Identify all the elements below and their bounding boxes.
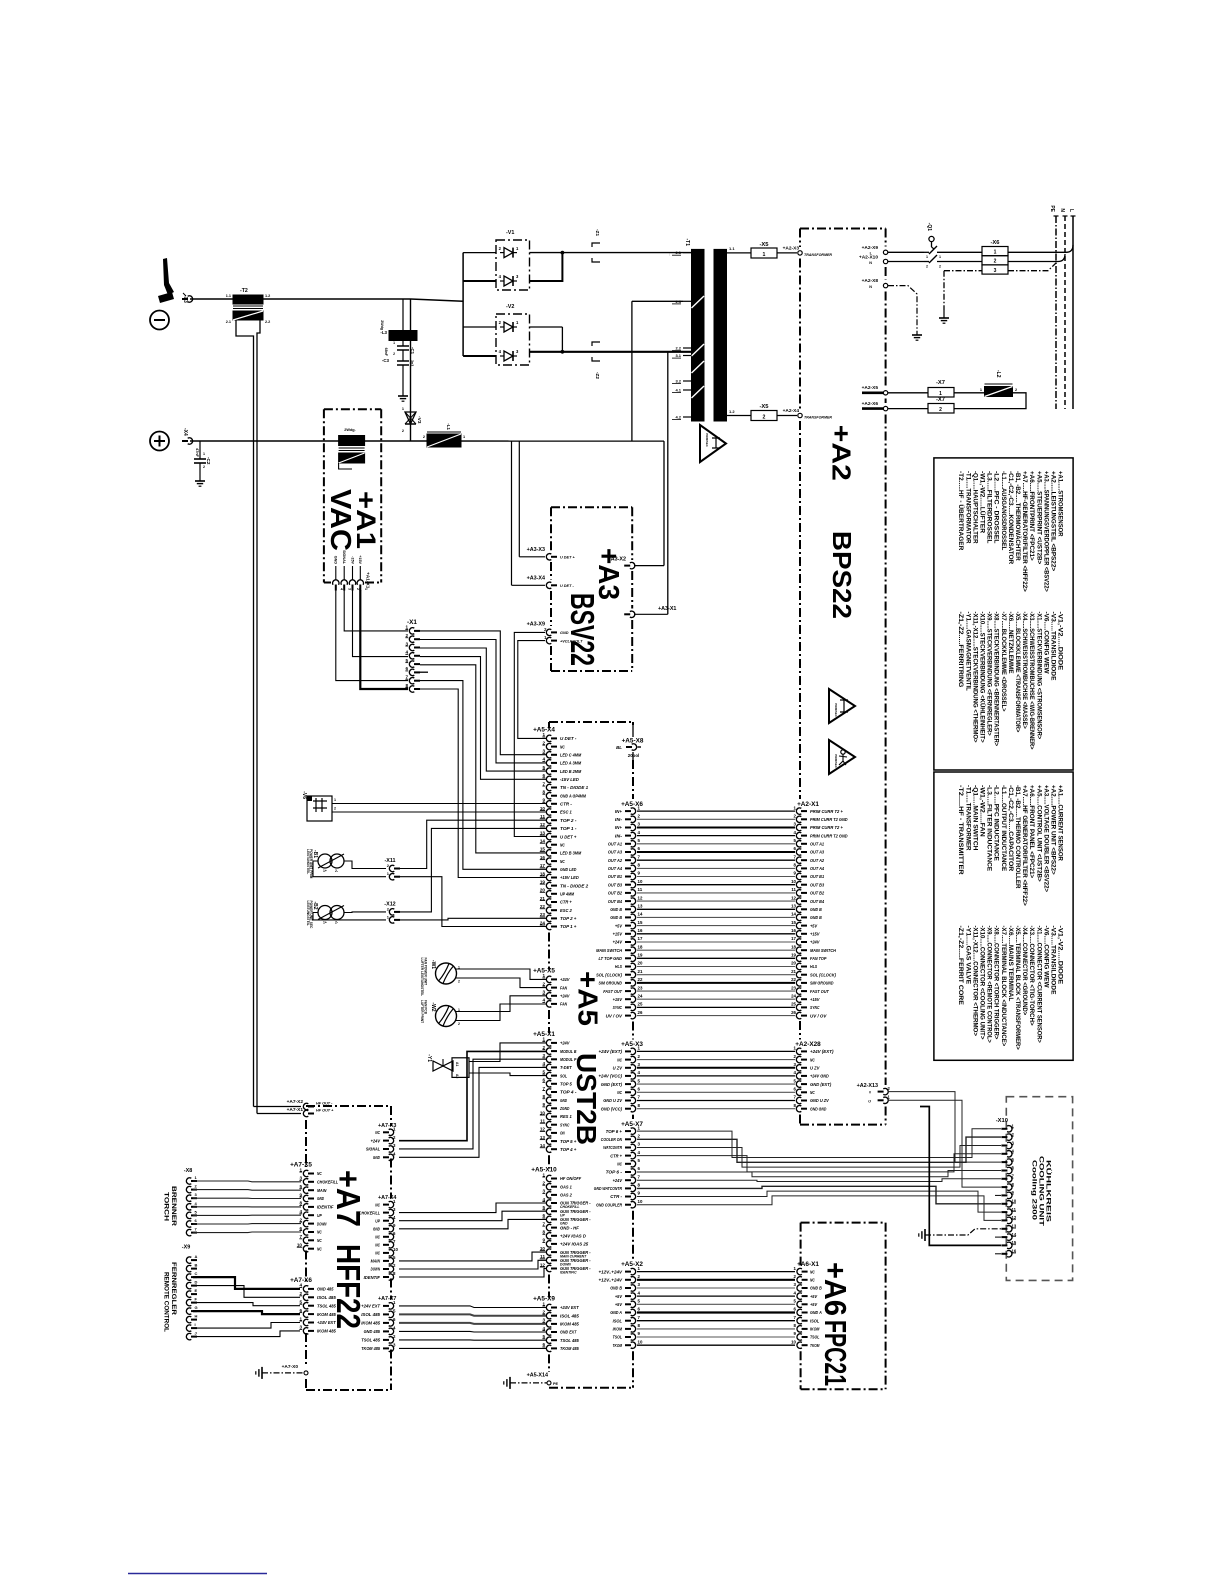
svg-text:+A6.....FRONTPRINT <FPC21>: +A6.....FRONTPRINT <FPC21> [1028,471,1035,561]
svg-text:-L3.....FILTERDROSSEL: -L3.....FILTERDROSSEL [986,471,993,544]
svg-text:IN-: IN- [615,817,623,822]
svg-text:FAN POWER UNIT: FAN POWER UNIT [424,958,428,986]
svg-text:-X1.....CONNECTOR <CURRENT SEN: -X1.....CONNECTOR <CURRENT SENSOR> [1035,926,1042,1044]
svg-text:G: G [195,1305,198,1310]
svg-text:1.2: 1.2 [265,294,270,298]
svg-text:NC: NC [810,1090,815,1095]
svg-text:OUT B1: OUT B1 [810,874,824,879]
svg-text:UP: UP [560,1213,565,1217]
svg-text:10: 10 [638,1199,643,1204]
svg-text:GAS 1: GAS 1 [560,1184,572,1189]
svg-text:FAST OUT: FAST OUT [603,989,623,994]
svg-text:OUT A4: OUT A4 [810,866,824,871]
svg-text:+5V: +5V [810,923,818,928]
svg-text:2-: 2- [335,869,338,873]
svg-text:Cooling 2300: Cooling 2300 [1031,1160,1038,1221]
svg-text:HF ON/OFF: HF ON/OFF [560,1176,581,1181]
svg-text:+24V GND: +24V GND [810,1074,829,1079]
svg-text:+15V: +15V [358,555,362,564]
svg-text:17: 17 [791,936,796,941]
svg-text:-X10.....STECKVERBINDUNG <KÜHL: -X10.....STECKVERBINDUNG <KÜHLEINHEIT> [979,612,988,743]
svg-text:-V3: -V3 [416,416,422,424]
svg-text:-C2: -C2 [206,457,211,465]
svg-text:-X4: -X4 [182,428,188,436]
svg-text:BL: BL [616,745,622,750]
svg-text:1: 1 [763,252,766,258]
svg-text:-X10: -X10 [996,1118,1008,1124]
svg-text:U: U [868,1099,871,1103]
svg-text:T-DET: T-DET [560,1065,573,1070]
svg-text:NC: NC [317,1171,322,1176]
svg-text:N: N [1059,208,1065,212]
svg-text:68nF: 68nF [384,348,388,357]
svg-text:+24V: +24V [560,1041,570,1046]
svg-text:GND: GND [334,556,338,565]
svg-text:19: 19 [791,953,796,958]
svg-text:IN+: IN+ [615,825,622,830]
svg-text:LED C 4MM: LED C 4MM [560,753,581,758]
svg-text:N: N [869,261,872,265]
svg-text:-X6.....NETZKLEMME: -X6.....NETZKLEMME [1007,612,1014,675]
svg-text:+5V: +5V [615,1302,623,1307]
svg-text:MAIN: MAIN [371,1259,381,1264]
svg-text:BPS22: BPS22 [827,531,857,619]
svg-text:-X5.....TERMINAL BLOCK <TRANSF: -X5.....TERMINAL BLOCK <TRANSFORMER> [1014,926,1021,1050]
svg-text:PRIM/SEC: PRIM/SEC [834,754,838,768]
svg-text:B: B [195,1263,198,1268]
svg-text:LED B 3MM: LED B 3MM [560,851,581,856]
svg-text:-L2.....PFC INDUCTANCE: -L2.....PFC INDUCTANCE [993,785,1000,862]
svg-text:DOWN: DOWN [371,1267,381,1272]
svg-text:GND (EXT): GND (EXT) [810,1082,832,1087]
svg-text:TKOM 485: TKOM 485 [361,1346,380,1351]
svg-text:11: 11 [540,1254,545,1259]
svg-text:PRIM CURR T2 +: PRIM CURR T2 + [810,825,843,830]
svg-text:GND 485: GND 485 [317,1287,334,1292]
svg-text:-Z1,-Z2.....FERRIT CORE: -Z1,-Z2.....FERRIT CORE [957,926,964,1006]
svg-text:+24V (EXT): +24V (EXT) [810,1049,834,1054]
svg-text:CTR -: CTR - [610,1194,622,1199]
svg-text:2.2: 2.2 [265,320,270,324]
svg-text:I: I [195,1322,196,1327]
svg-text:+15V LED: +15V LED [560,875,579,880]
svg-text:TSOL 485: TSOL 485 [560,1338,579,1343]
svg-text:-C1,-C2,-C3.....KONDENSATOR: -C1,-C2,-C3.....KONDENSATOR [1007,471,1014,565]
svg-text:2Wdg: 2Wdg [380,320,384,330]
svg-text:TSOL 485: TSOL 485 [361,1338,380,1343]
svg-text:+A3-X4: +A3-X4 [527,576,545,582]
svg-text:+A6: +A6 [818,1262,853,1316]
svg-text:C: C [195,1271,198,1276]
svg-text:-X11,-X12.....CONNECTOR <THERM: -X11,-X12.....CONNECTOR <THERMO> [971,926,978,1037]
svg-text:U DET +: U DET + [560,834,577,839]
svg-text:ISOL 485: ISOL 485 [317,1295,336,1300]
svg-text:+A5-X14: +A5-X14 [527,1373,548,1379]
svg-text:+A3-X1: +A3-X1 [658,606,676,612]
svg-text:FAN: FAN [560,1002,568,1007]
svg-text:+5V: +5V [615,923,623,928]
svg-text:-X9.....STECKVERBINDUNG <FERNR: -X9.....STECKVERBINDUNG <FERNREGLER> [986,612,993,736]
svg-text:-X6: -X6 [990,240,1000,246]
svg-text:UST2B: UST2B [571,1053,602,1145]
svg-text:LED A 3MM: LED A 3MM [560,761,581,766]
svg-text:+A3.....VOLTAGE DOUBLER <BSV22: +A3.....VOLTAGE DOUBLER <BSV22> [1042,785,1049,892]
svg-text:TOP 2 +: TOP 2 + [560,916,577,921]
svg-text:-L2: -L2 [995,370,1001,378]
svg-text:+VCLKVOLT: +VCLKVOLT [560,639,583,643]
svg-text:+A5-X3: +A5-X3 [621,1041,643,1048]
svg-text:-X10.....CONNECTOR <COOLING UN: -X10.....CONNECTOR <COOLING UNIT> [979,926,986,1040]
svg-text:2: 2 [423,435,425,439]
svg-text:MAIN SWITCH: MAIN SWITCH [810,948,836,953]
svg-text:HF OUT +: HF OUT + [316,1109,334,1113]
svg-text:+A2.....POWER UNIT <BPS22>: +A2.....POWER UNIT <BPS22> [1050,785,1057,875]
svg-text:-B1, -B2.....THERMO CONTROLLER: -B1, -B2.....THERMO CONTROLLER [1014,785,1021,889]
svg-text:1.1: 1.1 [226,294,231,298]
svg-text:2: 2 [939,265,941,269]
svg-text:+24V: +24V [613,1178,623,1183]
svg-text:REMOTE CONTROL: REMOTE CONTROL [163,1272,170,1332]
svg-text:20: 20 [791,961,796,966]
svg-text:CTR +: CTR + [610,1153,622,1158]
svg-text:-V1,-V2.....DIODE: -V1,-V2.....DIODE [1057,612,1064,672]
svg-text:PRIM CURR T2 GND: PRIM CURR T2 GND [810,817,848,822]
svg-text:SYNC: SYNC [810,1005,820,1010]
svg-text:BSV22: BSV22 [564,593,601,666]
svg-text:GND EXT: GND EXT [560,1330,577,1335]
svg-text:-V6.....CONFIG WEW: -V6.....CONFIG WEW [1042,612,1049,675]
svg-text:2-: 2- [335,921,338,925]
svg-text:-X3.....CONNECTOR <TIG-TORCH>: -X3.....CONNECTOR <TIG-TORCH> [1028,926,1035,1026]
svg-text:E: E [195,1288,198,1293]
svg-text:16: 16 [791,928,796,933]
svg-text:COOLER ON: COOLER ON [601,1137,623,1142]
svg-text:+A3-X3: +A3-X3 [527,547,545,553]
svg-text:4: 4 [339,588,343,590]
svg-text:-X5.....BLOCKKLEMME <TRANSFORM: -X5.....BLOCKKLEMME <TRANSFORMATOR> [1014,612,1021,733]
svg-text:FERNREGLER: FERNREGLER [170,1262,177,1316]
svg-text:+5V: +5V [810,1302,818,1307]
svg-text:4.1: 4.1 [675,388,681,393]
svg-text:PRIM CURR T2 +: PRIM CURR T2 + [810,809,843,814]
svg-text:21: 21 [638,969,643,974]
svg-text:-Q1.....HAUPTSCHALTER: -Q1.....HAUPTSCHALTER [971,471,978,544]
svg-text:+24V (VCC): +24V (VCC) [599,1074,623,1079]
svg-text:1: 1 [203,452,205,456]
svg-text:FAN: FAN [560,985,568,990]
svg-text:HF OUT -: HF OUT - [316,1102,333,1106]
svg-text:FAN PCB: FAN PCB [424,1000,428,1015]
svg-text:-V1: -V1 [506,230,514,236]
svg-text:GND: GND [560,1098,568,1103]
svg-text:+A2-X9: +A2-X9 [862,245,879,251]
svg-text:TN - DIODE 2: TN - DIODE 2 [560,883,589,888]
svg-text:18: 18 [791,944,796,949]
svg-text:2.1: 2.1 [226,320,231,324]
svg-text:N: N [869,285,872,289]
svg-text:NC: NC [375,1130,380,1135]
svg-text:2: 2 [334,807,336,811]
svg-text:1: 1 [994,250,997,256]
svg-text:MODUL P: MODUL P [560,1057,577,1062]
svg-text:3: 3 [348,588,352,590]
svg-text:NC: NC [810,1269,815,1274]
svg-text:SIGNAL: SIGNAL [366,1147,380,1152]
svg-text:+15V: +15V [613,932,623,937]
svg-text:FAST OUT: FAST OUT [810,989,830,994]
svg-text:IDENTIF: IDENTIF [317,1205,334,1210]
svg-text:+24V IGAS D: +24V IGAS D [560,1234,587,1239]
svg-text:-X8.....CONNECTOR <TORCH TRIGG: -X8.....CONNECTOR <TORCH TRIGGER> [993,926,1000,1040]
svg-text:D: D [195,1280,198,1285]
svg-text:12: 12 [791,895,796,900]
svg-text:+15V: +15V [810,932,820,937]
svg-text:15: 15 [638,920,643,925]
svg-text:2Wdg.: 2Wdg. [344,428,355,432]
svg-text:VAC: VAC [324,489,356,551]
svg-text:IN+: IN+ [615,809,622,814]
svg-text:GND B: GND B [610,915,622,920]
svg-text:GND U ZV: GND U ZV [810,1098,830,1103]
svg-text:POWER UNIT PRIM: POWER UNIT PRIM [309,849,313,879]
svg-text:+24V EXT: +24V EXT [560,1305,580,1310]
svg-text:47nF: 47nF [195,448,199,458]
svg-text:-T2.....HF - ÜBERTRAGER: -T2.....HF - ÜBERTRAGER [957,471,966,551]
svg-text:U DET -: U DET - [560,584,574,588]
svg-text:-V6: -V6 [301,791,307,799]
svg-text:-X11,-X12.....STECKVERBINDUNG: -X11,-X12.....STECKVERBINDUNG <THERMO> [971,612,978,743]
svg-text:UV / OV: UV / OV [606,1013,623,1018]
svg-text:-L3: -L3 [380,330,387,335]
svg-text:MAIN SWITCH: MAIN SWITCH [596,948,622,953]
svg-text:OUT B3: OUT B3 [608,882,622,887]
svg-text:NC: NC [617,1162,622,1167]
svg-text:TOP 5 +: TOP 5 + [560,1139,577,1144]
svg-text:1: 1 [402,407,404,411]
svg-text:+24V: +24V [560,977,570,982]
svg-text:GND B: GND B [610,907,622,912]
svg-text:8: 8 [299,1201,302,1206]
svg-text:GND 485: GND 485 [364,1329,381,1334]
svg-text:TRANSFORMER: TRANSFORMER [804,253,832,257]
svg-text:6: 6 [542,1078,545,1083]
svg-text:PE: PE [553,1382,559,1386]
svg-text:BRENNER: BRENNER [170,1186,177,1227]
svg-text:-L3.....FILTER INDUCTANCE: -L3.....FILTER INDUCTANCE [986,785,993,872]
svg-text:UP: UP [317,1213,322,1218]
svg-text:1: 1 [939,255,941,259]
svg-text:-15V LED: -15V LED [560,777,579,782]
svg-text:NC: NC [317,1246,322,1251]
svg-text:+5V: +5V [615,1294,623,1299]
svg-text:+24V IGAS 25: +24V IGAS 25 [560,1242,589,1247]
svg-text:10: 10 [791,879,796,884]
svg-text:+A3-X9: +A3-X9 [527,622,545,628]
svg-text:6: 6 [542,1342,545,1347]
svg-text:GND (EXT): GND (EXT) [601,1082,623,1087]
svg-text:NC: NC [810,1278,815,1283]
svg-text:1.1: 1.1 [729,246,735,251]
svg-text:TOP 1 -: TOP 1 - [560,826,577,831]
svg-text:+A3-X2: +A3-X2 [608,557,626,563]
svg-text:SIM GROUND: SIM GROUND [599,981,623,986]
svg-text:15: 15 [791,920,796,925]
svg-text:U ZV: U ZV [810,1066,820,1071]
svg-text:+24V: +24V [371,1138,381,1143]
svg-text:OUT B4: OUT B4 [810,899,824,904]
svg-text:MAIN: MAIN [317,1188,327,1193]
svg-text:GND A GP4MM: GND A GP4MM [560,793,586,798]
svg-text:IDENTIF: IDENTIF [364,1275,381,1280]
svg-text:11: 11 [791,887,796,892]
svg-text:IKOM: IKOM [613,1327,623,1332]
svg-text:GND: GND [560,1222,568,1226]
svg-text:U DET +: U DET + [560,556,575,560]
svg-text:-C1,-C2,-C3.....CAPACITOR: -C1,-C2,-C3.....CAPACITOR [1007,785,1014,872]
svg-text:18: 18 [638,944,643,949]
svg-text:TOP 1 +: TOP 1 + [560,924,577,929]
svg-text:-W2: -W2 [430,1002,436,1011]
svg-text:NC: NC [375,1202,380,1207]
svg-text:-W1: -W1 [430,960,436,969]
svg-text:+A7-X2: +A7-X2 [287,1099,304,1105]
svg-text:+A2-X5: +A2-X5 [862,385,879,391]
svg-text:UP: UP [375,1218,380,1223]
svg-text:ESC 1: ESC 1 [560,810,572,815]
svg-text:TOP 6 +: TOP 6 + [606,1129,623,1134]
svg-text:3: 3 [542,1189,545,1194]
svg-text:+A5: +A5 [573,971,604,1026]
svg-text:GAS 2: GAS 2 [560,1193,572,1198]
svg-text:NC: NC [617,1090,622,1095]
svg-text:-X9: -X9 [182,1245,190,1251]
svg-text:GND LED: GND LED [560,867,577,872]
svg-text:SOL (CLOCK): SOL (CLOCK) [810,972,836,977]
svg-text:+A3.....SPANNUNGSVERDOPPLER <B: +A3.....SPANNUNGSVERDOPPLER <BSV22> [1042,471,1049,592]
svg-text:TKOM: TKOM [613,1343,623,1348]
svg-text:SOL (CLOCK): SOL (CLOCK) [596,972,622,977]
svg-text:-V6.....CONFIG WEW: -V6.....CONFIG WEW [1042,926,1049,989]
svg-text:3: 3 [994,268,997,274]
svg-text:+24V: +24V [810,940,820,945]
svg-text:ON: ON [560,1131,565,1136]
svg-text:+A7.....HF GENERATOR/FILTER <H: +A7.....HF GENERATOR/FILTER <HFF22> [1021,785,1028,906]
svg-text:+A1.....CURRENT SENSOR: +A1.....CURRENT SENSOR [1057,785,1064,861]
svg-text:2: 2 [458,980,460,984]
svg-text:+5V: +5V [810,1294,818,1299]
svg-text:2.2: 2.2 [675,346,681,351]
svg-text:OUT A1: OUT A1 [810,842,824,847]
svg-text:-W1,-W2.....FAN: -W1,-W2.....FAN [979,785,986,837]
svg-text:+24V EXT: +24V EXT [317,1320,337,1325]
svg-text:-Y1.....GASMAGNETVENTIL: -Y1.....GASMAGNETVENTIL [964,612,971,691]
svg-text:6: 6 [542,1213,545,1218]
svg-text:-X5: -X5 [759,404,769,410]
svg-text:3: 3 [299,1325,302,1330]
svg-text:TSOL: TSOL [613,1335,623,1340]
svg-text:HLS: HLS [615,964,623,969]
svg-text:+24V EXT: +24V EXT [361,1304,381,1309]
svg-text:-L1.....OUTPUT INDUCTANCE: -L1.....OUTPUT INDUCTANCE [1000,785,1007,872]
svg-text:MAIN CURRENT: MAIN CURRENT [560,1254,587,1258]
svg-text:1: 1 [393,341,395,345]
svg-text:PRIM/SEC: PRIM/SEC [834,703,838,717]
svg-text:+A5.....CONTROL UNIT <UST2B>: +A5.....CONTROL UNIT <UST2B> [1035,785,1042,882]
svg-text:+A2-X28: +A2-X28 [795,1041,821,1048]
svg-text:PRIM CURR T2 GND: PRIM CURR T2 GND [810,833,848,838]
svg-text:9: 9 [542,1102,545,1107]
svg-text:GND: GND [373,1227,381,1232]
svg-text:NC: NC [317,1230,322,1235]
svg-text:GND GND: GND GND [810,1106,827,1111]
svg-text:+A2-X1: +A2-X1 [797,801,819,808]
svg-text:-Y1.....GAS VALVE: -Y1.....GAS VALVE [964,926,971,985]
svg-text:1+: 1+ [323,921,327,925]
svg-text:-C3: -C3 [382,358,390,363]
svg-text:OUT A2: OUT A2 [810,858,824,863]
svg-text:10: 10 [638,879,643,884]
svg-text:NC: NC [810,1057,815,1062]
svg-text:+A2: +A2 [827,425,857,481]
svg-text:-L1: -L1 [446,423,451,430]
svg-text:-Y1: -Y1 [426,1054,432,1062]
svg-text:GND (VCC): GND (VCC) [601,1106,623,1111]
svg-text:+A5-X6: +A5-X6 [621,801,643,808]
svg-text:CTR +: CTR + [560,900,572,905]
svg-text:IKOM 485: IKOM 485 [560,1322,579,1327]
svg-text:RES 1: RES 1 [560,1114,572,1119]
svg-text:+A7.....HF-GENERATOR/FILTER <H: +A7.....HF-GENERATOR/FILTER <HFF22> [1021,471,1028,592]
svg-text:GND WATCONTR: GND WATCONTR [594,1186,623,1191]
svg-text:25: 25 [638,1002,643,1007]
svg-text:FPC21: FPC21 [818,1320,853,1386]
svg-text:+A6.....FRONT PANEL <FPC21>: +A6.....FRONT PANEL <FPC21> [1028,785,1035,878]
svg-text:OUT B4: OUT B4 [608,899,622,904]
svg-text:IKOM 485: IKOM 485 [361,1321,380,1326]
svg-text:IDENTIFIC: IDENTIFIC [560,1271,577,1275]
svg-text:IKOM 485: IKOM 485 [317,1329,336,1334]
svg-text:4: 4 [542,1061,545,1066]
svg-text:SOL: SOL [560,1073,567,1078]
svg-text:2.1: 2.1 [675,250,681,255]
svg-text:GND: GND [317,1196,325,1201]
svg-text:-L1.....AUSGANGSDROSSEL: -L1.....AUSGANGSDROSSEL [1000,471,1007,550]
svg-text:2: 2 [393,352,395,356]
svg-text:NC: NC [317,1238,322,1243]
svg-text:NC: NC [560,859,565,864]
svg-text:A2: A2 [455,1074,459,1078]
svg-text:COOLING UNIT: COOLING UNIT [1038,1156,1045,1226]
svg-text:TRANSFORMER: TRANSFORMER [804,416,832,420]
svg-text:A1: A1 [455,1062,459,1066]
svg-text:13: 13 [638,904,643,909]
svg-text:NC: NC [560,842,565,847]
svg-text:1: 1 [542,1037,545,1042]
svg-text:-X7: -X7 [936,397,945,403]
svg-text:+A5.....STEUERPRINT <UST2B>: +A5.....STEUERPRINT <UST2B> [1035,471,1042,564]
svg-text:12: 12 [638,895,643,900]
svg-text:OUT B2: OUT B2 [810,891,824,896]
svg-text:+A2-X13: +A2-X13 [857,1083,878,1089]
svg-text:2: 2 [1015,388,1017,392]
svg-text:TOP 6 -: TOP 6 - [606,1170,623,1175]
svg-text:KÜHLKREIS: KÜHLKREIS [1045,1160,1054,1223]
svg-text:-X8.....STECKVERBINDUNG <BRENN: -X8.....STECKVERBINDUNG <BRENNERTASTER> [993,612,1000,747]
svg-text:-X3.....SCHWEISSTROMBUCHSE <WI: -X3.....SCHWEISSTROMBUCHSE <WIG-BRENNER> [1028,612,1035,750]
svg-text:+A2-X10: +A2-X10 [859,255,878,261]
svg-text:OUT A3: OUT A3 [810,850,824,855]
svg-text:OUT A4: OUT A4 [608,866,622,871]
